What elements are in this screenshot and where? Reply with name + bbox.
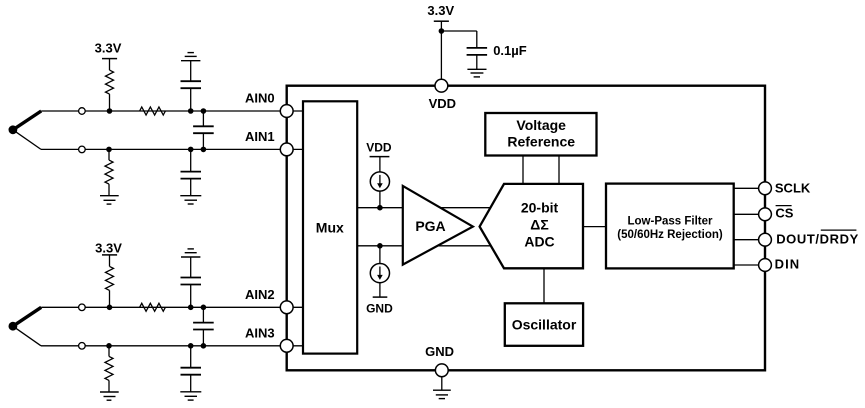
svg-text:3.3V: 3.3V <box>95 41 122 56</box>
node open circle on AIN2 wire <box>79 304 86 311</box>
wire node to decoupling cap <box>441 31 476 48</box>
ADC label <box>521 200 559 250</box>
VDD bar current source <box>370 156 390 158</box>
node junction AIN2/diff cap <box>201 305 207 311</box>
3.3V supply label top center <box>427 3 454 18</box>
capacitor C to ground below AIN3 <box>190 346 192 392</box>
svg-text:GND: GND <box>366 302 393 316</box>
thermocouple TC1 <box>9 111 42 149</box>
capacitor C to ground below AIN1 <box>190 149 192 195</box>
resistor pull-down R on AIN1 <box>105 149 113 195</box>
Mux label <box>316 220 344 236</box>
svg-text:AIN2: AIN2 <box>245 287 275 302</box>
label GND pin <box>425 344 454 359</box>
wire AIN3 from thermocouple 2 to Mux <box>41 345 303 347</box>
ground below AIN1 pull-down <box>100 196 119 204</box>
svg-text:Voltage: Voltage <box>516 117 566 133</box>
label AIN1 <box>245 129 275 144</box>
ground below AIN3 cap <box>180 392 201 400</box>
wire LPF to SCLK pin <box>734 187 765 189</box>
label AIN2 <box>245 287 275 302</box>
node junction AIN1/diff cap <box>201 147 207 153</box>
3.3V supply label section 2 <box>95 240 122 255</box>
Oscillator block <box>505 303 583 346</box>
node open circle on AIN3 wire <box>79 343 86 350</box>
svg-text:Mux: Mux <box>316 220 344 236</box>
label AIN0 <box>245 91 275 106</box>
label SCLK <box>775 180 811 195</box>
GND bar current source <box>373 296 388 298</box>
GND label current source <box>366 302 393 316</box>
3.3V supply bar top center <box>434 20 449 22</box>
ground below AIN1 cap <box>180 196 201 204</box>
pin AIN1 <box>280 143 293 156</box>
pin AIN0 <box>280 105 293 118</box>
svg-text:3.3V: 3.3V <box>95 240 122 255</box>
wire Mux output positive to ADC <box>357 207 497 209</box>
svg-text:20-bit: 20-bit <box>521 200 559 216</box>
wire AIN1 from thermocouple 1 to Mux <box>41 148 303 150</box>
wire Voltage Reference to ADC right <box>558 156 560 184</box>
label VDD pin <box>429 96 456 111</box>
svg-text:CS: CS <box>775 206 793 221</box>
capacitor C1 0.1uF decoupling <box>467 48 488 55</box>
capacitor C to inverted ground above AIN0 <box>190 61 192 111</box>
svg-text:(50/60Hz Rejection): (50/60Hz Rejection) <box>617 229 723 241</box>
PGA label <box>415 218 445 234</box>
pin CS <box>759 208 772 221</box>
svg-text:AIN0: AIN0 <box>245 91 275 106</box>
svg-text:DOUT/DRDY: DOUT/DRDY <box>776 231 859 246</box>
pin DIN <box>759 259 772 272</box>
value label 0.1uF <box>493 43 527 58</box>
svg-text:Low-Pass Filter: Low-Pass Filter <box>628 216 714 228</box>
resistor series R on AIN0 <box>140 107 166 115</box>
Oscillator label <box>512 317 577 333</box>
node junction AIN2/cap3 <box>188 305 194 311</box>
node junction AIN3/cap4 <box>188 343 194 349</box>
pin AIN2 <box>280 301 293 314</box>
node junction current source I2 <box>377 243 383 249</box>
svg-text:ΔΣ: ΔΣ <box>530 217 548 233</box>
pin DOUT/DRDY <box>759 233 772 246</box>
wire 3.3V to VDD pin <box>440 21 442 86</box>
label DIN <box>775 257 801 272</box>
wire ADC to Oscillator <box>543 268 545 303</box>
pin AIN3 <box>280 339 293 352</box>
pin SCLK <box>759 182 772 195</box>
node junction 3.3V/decoupling cap <box>439 28 445 34</box>
svg-text:ADC: ADC <box>524 233 554 249</box>
wire AIN2 from thermocouple 2 to Mux <box>41 306 303 308</box>
resistor pull-down R on AIN3 <box>105 346 113 392</box>
svg-text:Reference: Reference <box>507 133 575 149</box>
wire LPF to CS pin <box>734 213 765 215</box>
node open circle on AIN0 wire <box>79 108 86 115</box>
op-amp PGA A1 <box>403 186 473 265</box>
svg-text:PGA: PGA <box>415 218 445 234</box>
Low-Pass Filter block <box>606 184 734 269</box>
ADC block 20-bit delta-sigma <box>480 184 583 268</box>
wire ADC to Low-Pass Filter <box>583 226 606 228</box>
ground below decoupling cap <box>467 69 486 77</box>
svg-text:AIN1: AIN1 <box>245 129 275 144</box>
capacitor C differential between AIN0 and AIN1 <box>202 111 204 149</box>
node junction AIN0/cap1 <box>188 108 194 114</box>
node junction AIN1/pull-down <box>106 147 112 153</box>
wire AIN0 from thermocouple 1 to Mux <box>41 110 303 112</box>
label CS with overline <box>775 206 793 221</box>
capacitor C to inverted ground above AIN2 <box>190 257 192 307</box>
3.3V supply label section 1 <box>95 41 122 56</box>
3.3V supply bar section 2 <box>102 254 117 256</box>
thermocouple TC2 <box>9 307 42 346</box>
svg-text:0.1µF: 0.1µF <box>493 43 527 58</box>
svg-text:DIN: DIN <box>775 257 801 272</box>
3.3V supply bar section 1 <box>102 58 117 60</box>
svg-text:3.3V: 3.3V <box>427 3 454 18</box>
IC main box <box>287 86 765 371</box>
resistor pull-up R on AIN2 <box>106 255 114 307</box>
resistor pull-up R on AIN0 <box>106 59 114 111</box>
svg-text:VDD: VDD <box>429 96 456 111</box>
resistor series R on AIN2 <box>140 303 166 311</box>
pin VDD <box>435 79 448 92</box>
inverted ground above AIN0 cap <box>181 53 200 61</box>
node junction AIN3/diff cap <box>201 343 207 349</box>
svg-text:VDD: VDD <box>366 141 392 155</box>
node junction AIN2/pull-up <box>107 305 113 311</box>
capacitor C differential between AIN2 and AIN3 <box>202 307 204 346</box>
wire Voltage Reference to ADC left <box>522 156 524 184</box>
svg-text:Oscillator: Oscillator <box>512 317 577 333</box>
svg-text:GND: GND <box>425 344 454 359</box>
label DOUT/DRDY with overline on DRDY <box>776 231 859 246</box>
node junction current source I1 <box>377 205 383 211</box>
wire LPF to DIN pin <box>734 264 765 266</box>
current source I2 burnout to GND <box>370 246 389 297</box>
inverted ground above AIN2 cap <box>181 249 200 257</box>
node junction AIN0/diff cap <box>201 108 207 114</box>
svg-text:SCLK: SCLK <box>775 180 811 195</box>
VDD label current source <box>366 141 392 155</box>
Mux block U1 <box>303 101 357 353</box>
node junction AIN1/cap2 <box>188 147 194 153</box>
wire Mux output negative to ADC <box>357 245 497 247</box>
label AIN3 <box>245 326 275 341</box>
Voltage Reference block <box>485 113 596 156</box>
ground below GND pin <box>433 390 451 398</box>
node open circle on AIN1 wire <box>79 146 86 153</box>
current source I1 burnout to VDD <box>370 157 389 208</box>
ground below AIN3 pull-down <box>100 392 119 400</box>
node junction AIN0/pull-up <box>107 108 113 114</box>
wire LPF to DOUT pin <box>734 239 765 241</box>
pin GND <box>435 364 448 377</box>
Voltage Reference label <box>507 117 575 149</box>
svg-text:AIN3: AIN3 <box>245 326 275 341</box>
Low-Pass Filter label <box>617 216 723 241</box>
wire GND pin to ground <box>441 377 443 391</box>
node junction AIN3/pull-down <box>106 343 112 349</box>
